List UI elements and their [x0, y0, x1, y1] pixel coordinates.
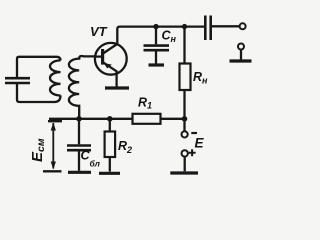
terminal (output bottom) [238, 44, 244, 50]
Есм dimension bottom tick [43, 170, 62, 172]
transistor VT collector diagonal [103, 44, 117, 54]
ground (+E) [170, 171, 198, 174]
resistor Rн lead bottom [183, 90, 185, 119]
wire coupling cap to output [212, 25, 240, 27]
node (Rн / R1 / -E) [182, 116, 188, 122]
ground lead (+E) [184, 157, 186, 172]
ground lead (output bottom) [240, 50, 242, 60]
wire bias rail [49, 118, 185, 120]
tank capacitor C1 plates [5, 78, 30, 83]
lead to -E terminal [183, 119, 185, 131]
transistor VT emitter arrow [104, 63, 112, 68]
ground (output) [230, 59, 252, 62]
resistor R2 lead bottom [109, 157, 111, 172]
capacitor Cбл plates [67, 146, 91, 151]
tank capacitor C1 bottom lead + bottom wire [17, 84, 61, 103]
capacitor Cн stem top [155, 27, 157, 45]
transistor VT base lead [95, 55, 102, 57]
Есм dimension arrowhead up [51, 123, 56, 131]
resistor R2 lead top [109, 119, 111, 132]
Есм dimension arrow line [52, 123, 54, 169]
node (L2 / Cбл) [76, 116, 82, 122]
terminal +E [182, 150, 188, 156]
transistor VT circle [95, 43, 127, 75]
Есм dimension top tick [48, 120, 62, 122]
coupling capacitor plates [205, 16, 210, 41]
terminal -E [182, 131, 188, 137]
transistor VT emitter lead [115, 71, 117, 87]
capacitor Cн stem bottom [155, 52, 157, 64]
inductor L1 (left winding) [50, 60, 61, 95]
resistor R1 body [133, 114, 161, 124]
transistor VT base bar [101, 49, 104, 65]
wire collector to top rail [117, 27, 204, 45]
ground (R2) [99, 172, 120, 175]
svg-text:VT: VT [90, 24, 108, 39]
ground (emitter) [105, 86, 129, 89]
resistor Rн body [180, 64, 191, 91]
transistor VT emitter diagonal [103, 62, 117, 71]
node (R2) [107, 116, 113, 122]
resistor R2 body [105, 132, 116, 158]
Есм dimension arrowhead down [51, 162, 56, 170]
capacitor Cбл stem top [78, 119, 80, 145]
plus sign [189, 149, 196, 156]
inductor L2 (right winding) [69, 56, 95, 119]
tank capacitor C1 top lead + top wire [17, 57, 61, 78]
capacitor Cн plates [144, 46, 170, 51]
svg-text:E: E [195, 136, 205, 151]
node (top rail / Cн) [153, 24, 158, 29]
minus sign [191, 132, 197, 134]
resistor Rн lead top [183, 27, 185, 64]
capacitor Cбл stem bottom [78, 152, 80, 171]
ground (Cбл) [68, 171, 91, 174]
ground (Cн) [149, 63, 165, 66]
node (top rail / Rн) [182, 24, 187, 29]
terminal (output top) [240, 23, 246, 29]
